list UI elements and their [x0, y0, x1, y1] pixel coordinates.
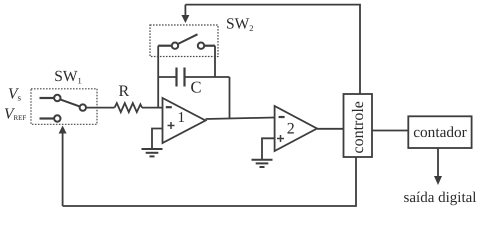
block controle: [344, 94, 373, 157]
wire contador output arrow: [434, 148, 442, 185]
wire capacitor left: [158, 76, 176, 78]
svg-text:controle: controle: [350, 101, 367, 153]
svg-text:SW2: SW2: [226, 16, 254, 34]
svg-text:R: R: [119, 83, 130, 100]
wire arrow into SW2: [181, 5, 189, 23]
wire capacitor right: [185, 76, 230, 78]
svg-text:contador: contador: [413, 124, 467, 141]
ground (U1): [142, 149, 163, 156]
svg-text:C: C: [191, 78, 202, 97]
svg-text:SW1: SW1: [54, 68, 82, 86]
svg-text:Vs: Vs: [8, 86, 21, 103]
svg-text:1: 1: [178, 110, 186, 126]
switch SW2: [172, 34, 204, 49]
op-amp U2: [275, 106, 317, 151]
wire controle top feedback: [185, 5, 360, 94]
wire resistor to op-amp U1 inverting input: [142, 107, 163, 109]
svg-text:2: 2: [287, 121, 295, 138]
wire SW2 left stub: [158, 45, 172, 47]
svg-text:saída digital: saída digital: [404, 190, 477, 206]
wire Vs stub: [40, 97, 55, 99]
wire feedback left vertical (node A): [157, 46, 159, 108]
block contador: [408, 116, 471, 148]
wire U2 noninverting input to ground: [262, 138, 275, 159]
capacitor C: [177, 68, 185, 87]
wire SW2 right down to capacitor net: [214, 46, 216, 77]
ground (U2): [252, 160, 273, 167]
wire U1 output: [206, 118, 275, 120]
wire U2 output to controle: [317, 128, 344, 130]
switch SW1: [54, 95, 86, 122]
wire feedback right vertical to output: [229, 77, 231, 118]
wire U1 noninverting input to ground: [152, 129, 163, 149]
svg-text:VREF: VREF: [4, 105, 26, 122]
resistor R: [115, 103, 143, 112]
switch SW2 dashed enclosure: [150, 25, 218, 57]
wire arrow into SW1: [59, 126, 67, 207]
wire SW1 output to resistor: [86, 107, 115, 109]
wire SW2 right stub: [204, 45, 215, 47]
wire controle to contador: [372, 130, 408, 132]
switch SW1 dashed enclosure: [31, 89, 97, 125]
op-amp U1: [163, 98, 206, 143]
wire VREF stub: [40, 117, 55, 119]
wire controle bottom feedback: [63, 157, 356, 206]
